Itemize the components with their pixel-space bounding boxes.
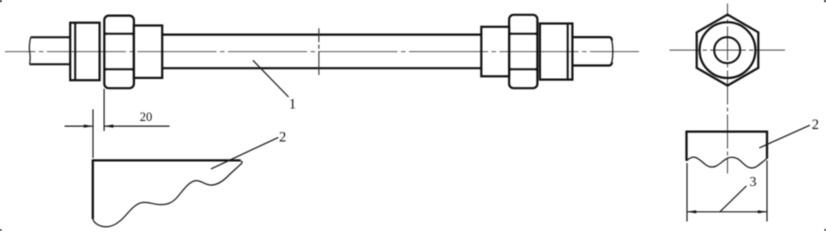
svg-text:2: 2: [279, 130, 286, 146]
hex nut front view: horizontal centerline: [670, 49, 786, 51]
right nut: [509, 15, 537, 88]
right stub top line: [572, 37, 612, 40]
leader line 1: [253, 60, 289, 97]
svg-text:2: 2: [812, 117, 819, 133]
dim 3 leader: [720, 186, 747, 212]
lower-left plate break line: [93, 161, 242, 227]
svg-text:3: 3: [750, 175, 757, 190]
left stub break line: [29, 37, 30, 64]
hex nut front view: vertical centerline: [727, 4, 729, 174]
left nut M-body: [104, 16, 134, 89]
dim 3 extension line right: [766, 161, 768, 222]
lower-right plate break line: [687, 157, 768, 168]
dim 20 arrow right: [104, 125, 113, 128]
right nut facet line lower: [510, 68, 536, 70]
svg-text:1: 1: [289, 96, 296, 112]
lower-right plate top edge: [687, 130, 768, 132]
right nut chamfer vertex dots: [509, 32, 538, 70]
corner mark bottom-right: [825, 229, 826, 231]
dim 3 arrow left: [687, 210, 696, 213]
dim 3 extension line left: [686, 163, 688, 222]
right sleeve washer: [481, 27, 509, 77]
hole circle: [714, 37, 740, 63]
left stub (threaded rod end): [30, 37, 71, 64]
right stub bottom line: [572, 62, 612, 65]
left sleeve washer: [134, 26, 162, 78]
left nut facet line upper: [105, 33, 133, 35]
right nut facet line upper: [510, 33, 536, 35]
dim 20 extension line b: [103, 89, 105, 131]
corner mark top-left: [0, 0, 2, 2]
dim 3 arrow right: [758, 210, 767, 213]
lower-left plate left edge: [92, 159, 94, 219]
right stub end cap arc: [612, 39, 613, 65]
svg-text:20: 20: [140, 110, 153, 124]
left nut chamfer vertex dots: [104, 32, 134, 70]
dim 20 arrow left: [84, 125, 93, 128]
lower-left plate top edge: [93, 159, 241, 161]
dim 3 line: [687, 211, 767, 213]
left washer: [70, 23, 99, 80]
right washer chamfer line: [567, 24, 569, 80]
mid vertical dash-dot mark: [318, 28, 320, 75]
leader line 2 (right): [759, 125, 810, 148]
hexagon: [697, 15, 759, 86]
right washer: [540, 24, 573, 80]
left nut facet line lower: [105, 68, 133, 70]
top-right corner mark: [824, 0, 826, 2]
rod body: [162, 35, 481, 69]
lower-right plate right edge: [766, 131, 768, 159]
lower-right plate left edge: [685, 131, 687, 161]
left washer chamfer line: [74, 23, 76, 80]
dim 20 extension line a: [92, 109, 94, 158]
leader line 2 (left): [211, 137, 278, 169]
dim 20 line left: [65, 125, 94, 127]
chamfer circle: [700, 22, 756, 78]
corner mark bottom-left: [0, 229, 1, 231]
dim 20 line right: [104, 125, 169, 127]
main axis centerline: [5, 51, 639, 53]
